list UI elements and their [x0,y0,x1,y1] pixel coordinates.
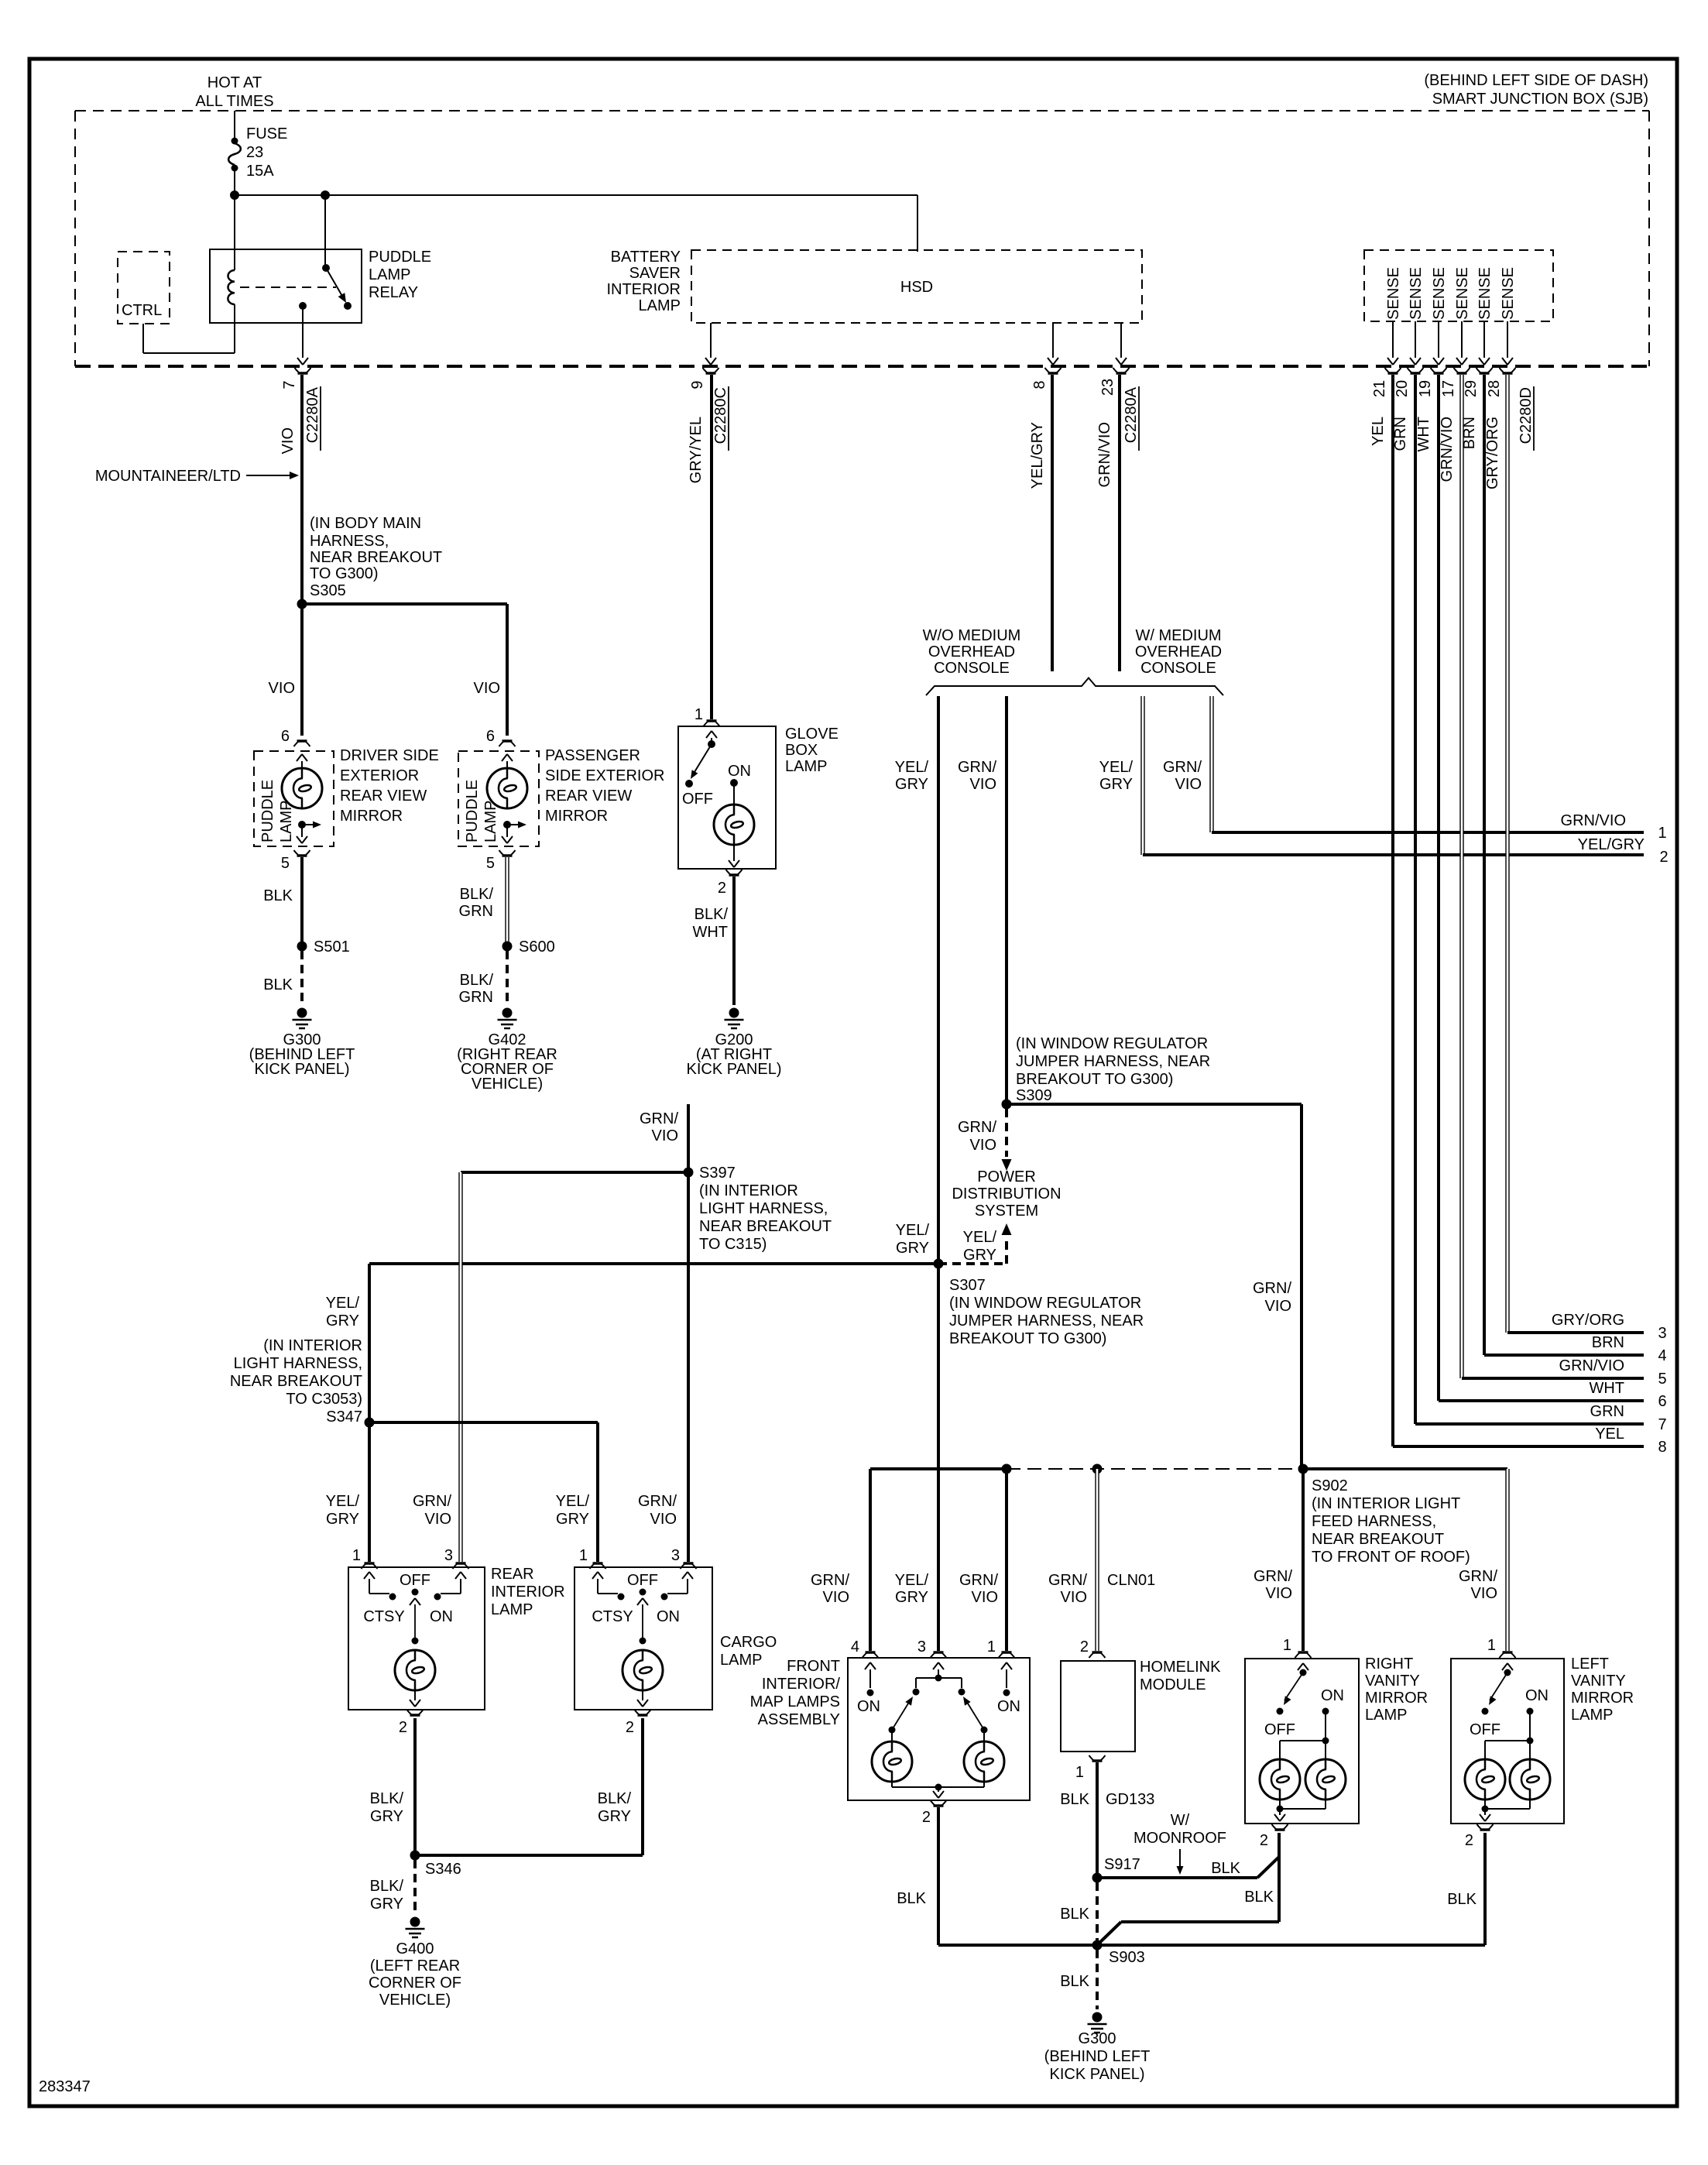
label console YEL/GRY 1 [895,759,929,793]
diagram number 283347 [39,2078,91,2095]
svg-text:GRN/: GRN/ [640,1110,678,1127]
label S307 note [949,1277,1144,1347]
svg-text:23: 23 [246,144,263,161]
pin 4 map lamps [851,1638,879,1658]
splice S902 [1298,1464,1308,1474]
svg-text:TO C315): TO C315) [699,1236,767,1253]
wire BLK/GRY rear lamp to S346 [413,1718,417,1855]
svg-text:GRY: GRY [598,1808,631,1825]
label BLK dashed g300 [1060,1973,1089,1990]
svg-text:GRN/: GRN/ [811,1572,849,1589]
svg-text:JUMPER HARNESS, NEAR: JUMPER HARNESS, NEAR [949,1312,1144,1330]
svg-text:GRY: GRY [326,1312,359,1330]
passenger mirror label [545,747,664,825]
label GRN/VIO map pin4 [811,1572,849,1606]
pin 2 glove box lamp [718,870,743,897]
HSD dashed box [691,250,1142,323]
pin 5 right edge [1559,1357,1667,1388]
svg-text:S346: S346 [425,1861,461,1878]
svg-text:GRY/YEL: GRY/YEL [688,417,705,483]
label S347 note [230,1337,362,1426]
svg-text:DRIVER SIDE: DRIVER SIDE [340,747,439,764]
wire BLK/GRY cargo to S346 [415,1718,643,1855]
svg-text:REAR VIEW: REAR VIEW [545,787,632,805]
wire S309 to S902 corner [1007,1104,1302,1469]
svg-text:TO C3053): TO C3053) [286,1391,362,1408]
pin 2 right vanity [1260,1824,1288,1849]
glove box switch [682,731,717,808]
pin 3 map lamps [917,1638,947,1658]
svg-text:BLK/: BLK/ [460,972,494,989]
map lamps left switch arrow [889,1695,916,1734]
wire BLK dashed to ground [300,951,304,1005]
label G300 main [1044,2030,1151,2083]
map lamp bulb left [872,1730,912,1782]
svg-text:BATTERY: BATTERY [611,249,681,266]
svg-text:2: 2 [1465,1832,1473,1849]
wire YEL/GRY w/ console [1143,696,1644,855]
svg-text:7: 7 [1658,1416,1666,1433]
svg-text:SYSTEM: SYSTEM [975,1203,1038,1220]
pin 7 right edge [1590,1403,1667,1433]
svg-text:2: 2 [399,1719,407,1736]
svg-text:VIO: VIO [425,1511,451,1528]
svg-text:BLK/: BLK/ [370,1878,404,1895]
pin 5 passenger mirror [486,850,516,872]
svg-text:GRN/: GRN/ [958,1119,996,1136]
pin 1 cargo lamp [579,1547,606,1569]
svg-text:PUDDLE: PUDDLE [259,780,276,842]
node relay branch dot [321,190,330,200]
svg-text:FUSE: FUSE [246,125,287,142]
svg-text:YEL/GRY: YEL/GRY [1029,422,1046,489]
svg-text:17: 17 [1440,380,1457,397]
svg-text:6: 6 [486,728,495,745]
ground G300 main [1088,2012,1107,2033]
connector C2280D pins 21 20 19 17 29 28 [1371,368,1535,451]
svg-text:LAMP: LAMP [720,1652,762,1669]
wire S347 branch to cargo pin1 [369,1422,598,1562]
wire BLK right vanity to S903 [1099,1922,1279,1944]
pin 3 rear interior lamp [444,1547,469,1569]
pin 3 cargo lamp [671,1547,697,1569]
rear interior lamp assembly [348,1567,485,1710]
svg-text:BOX: BOX [785,742,818,759]
map lamps pin3 bracket [913,1662,965,1696]
wire BLK/GRY dashed to G400 [413,1860,417,1914]
svg-text:YEL: YEL [1595,1426,1624,1443]
svg-text:4: 4 [851,1638,859,1655]
wire GRN/VIO S902 to left vanity pin1 [1303,1467,1507,1470]
svg-text:(BEHIND LEFT: (BEHIND LEFT [1044,2048,1151,2065]
pin 2 right edge [1578,836,1669,866]
pin 6 driver mirror [281,728,310,746]
label BLK s917 [1211,1860,1240,1877]
wire coil to CTRL [143,324,235,353]
wire BLK map lamps to S903 line [937,1807,940,1945]
connector C2280A pin 7 [281,368,321,451]
ground G200 [725,1008,744,1029]
svg-text:VIO: VIO [970,776,996,793]
svg-text:GRY: GRY [895,776,928,793]
wire branch to relay switch [324,195,326,268]
svg-text:MAP LAMPS: MAP LAMPS [750,1693,840,1710]
label BLK/GRY dashed g400 [370,1878,404,1913]
svg-text:SMART JUNCTION BOX (SJB): SMART JUNCTION BOX (SJB) [1432,91,1648,108]
svg-text:1: 1 [1283,1637,1291,1654]
wire YEL/GRY S307 to rear lamps [369,1262,938,1265]
svg-text:LAMP: LAMP [1571,1707,1613,1724]
svg-text:FEED HARNESS,: FEED HARNESS, [1312,1513,1436,1530]
svg-text:KICK PANEL): KICK PANEL) [1050,2066,1145,2083]
svg-text:2: 2 [1080,1638,1089,1655]
svg-text:GRN/: GRN/ [1048,1572,1087,1589]
svg-text:PUDDLE: PUDDLE [369,249,431,266]
ground G300 driver [293,1008,312,1029]
label RIGHT VANITY MIRROR LAMP [1365,1655,1428,1724]
ground G402 [498,1008,517,1029]
wire GRN/VIO double to rear lamp pin3 [458,1172,462,1562]
label REAR INTERIOR LAMP [491,1566,565,1618]
svg-text:LAMP: LAMP [369,266,410,283]
glove box bulb to pin2 [729,845,739,867]
wires SENSE outputs arrows [1387,321,1513,365]
wire BLK homelink to S917 [1096,1762,1099,1878]
relay internal dashed link [240,286,336,288]
svg-text:ON: ON [1321,1687,1344,1704]
cargo lamp assembly [574,1567,712,1710]
glove box lamp label [785,726,839,775]
wire HSD out pin 9 arrow [705,323,716,365]
svg-text:SENSE: SENSE [1476,267,1494,320]
svg-text:SENSE: SENSE [1385,267,1402,320]
svg-text:LAMP: LAMP [639,297,681,314]
node CLN01 junction [1092,1464,1103,1474]
label BLK [263,887,293,904]
label YEL/GRY rear1 [326,1493,360,1528]
label G300 driver [249,1031,355,1078]
svg-text:REAR: REAR [491,1566,534,1583]
connector pin 8 [1031,368,1061,389]
svg-text:GRN: GRN [1392,417,1409,451]
svg-text:YEL/: YEL/ [896,1222,930,1239]
homelink module box [1061,1661,1135,1752]
label GRN/VIO right vanity [1254,1568,1292,1602]
wire hot feed into fuse [234,111,235,138]
label G200 [687,1031,782,1078]
glove box bulb [714,805,754,845]
label S902 note [1312,1477,1470,1566]
label W/ MEDIUM OVERHEAD CONSOLE [1135,627,1222,677]
label GRN/VIO rear1 [413,1493,451,1528]
svg-text:TO FRONT OF ROOF): TO FRONT OF ROOF) [1312,1549,1470,1566]
label GRN/VIO left vanity [1459,1568,1497,1602]
svg-text:VIO: VIO [972,1589,998,1606]
svg-text:HOT AT: HOT AT [207,74,262,91]
svg-text:5: 5 [281,855,290,872]
svg-text:BREAKOUT TO G300): BREAKOUT TO G300) [949,1330,1106,1347]
svg-text:(IN INTERIOR: (IN INTERIOR [699,1182,798,1199]
svg-text:G400: G400 [396,1940,434,1957]
svg-text:29: 29 [1463,380,1480,397]
svg-text:W/: W/ [1171,1812,1190,1829]
svg-text:S347: S347 [326,1408,362,1426]
svg-text:YEL/: YEL/ [1099,759,1134,776]
svg-text:21: 21 [1371,380,1388,397]
svg-text:C2280C: C2280C [712,387,729,444]
driver mirror internal node [297,821,321,843]
svg-text:GRN: GRN [459,903,493,920]
svg-text:INTERIOR/: INTERIOR/ [762,1676,841,1693]
svg-text:BRN: BRN [1592,1334,1624,1351]
node HOT AT ALL TIMES [195,74,273,110]
label G402 [457,1031,557,1093]
svg-text:G300: G300 [1079,2030,1116,2047]
svg-text:OFF: OFF [682,791,713,808]
label FRONT INTERIOR MAP LAMPS ASSEMBLY [750,1658,841,1728]
label GRN/VIO rotated [1096,422,1113,487]
relay box outline [210,249,362,323]
CTRL box dashed [118,252,170,324]
label GRY/YEL pin9 wire [688,417,705,483]
wire relay output to pin 7 [297,306,308,365]
wire BLK/GRN dashed to ground [506,951,509,1005]
label BLK dashed mid [1060,1906,1089,1923]
svg-text:VIO: VIO [970,1137,996,1154]
map lamps pin1 ON switch [997,1662,1020,1715]
svg-text:WHT: WHT [1589,1380,1624,1397]
ground G400 [406,1917,425,1938]
wire YEL pin21 to row8 [1393,375,1644,1446]
svg-text:CORNER OF: CORNER OF [369,1975,461,1992]
svg-text:C2280A: C2280A [1123,386,1140,443]
svg-text:BLK: BLK [1447,1891,1476,1908]
label BLK GD133 [1060,1791,1154,1808]
wire GRN/VIO dashed to power distribution [1002,1109,1012,1171]
svg-text:BLK: BLK [1244,1889,1274,1906]
svg-text:GRY: GRY [326,1511,359,1528]
svg-text:YEL: YEL [1370,417,1387,446]
pin 8 right edge [1595,1426,1666,1456]
svg-text:OFF: OFF [627,1572,658,1589]
label GRN/VIO S397 [640,1110,678,1144]
glove box lamp box [678,726,776,869]
svg-text:ASSEMBLY: ASSEMBLY [758,1711,840,1728]
svg-text:ON: ON [997,1698,1020,1715]
svg-text:(IN WINDOW REGULATOR: (IN WINDOW REGULATOR [1016,1035,1208,1052]
label PUDDLE LAMP rotated [259,780,295,842]
svg-text:YEL/: YEL/ [326,1493,360,1510]
svg-text:(IN WINDOW REGULATOR: (IN WINDOW REGULATOR [949,1295,1141,1312]
svg-text:CARGO: CARGO [720,1634,777,1651]
svg-text:ON: ON [1525,1687,1549,1704]
svg-text:POWER: POWER [977,1168,1036,1185]
label HOMELINK MODULE [1140,1659,1221,1693]
svg-text:W/O MEDIUM: W/O MEDIUM [923,627,1021,644]
svg-text:S903: S903 [1109,1949,1145,1966]
label VIO pin7 wire [280,427,297,454]
splice S397 [684,1168,694,1178]
svg-text:GRY: GRY [1099,776,1133,793]
svg-text:BLK/: BLK/ [695,906,729,923]
svg-text:MODULE: MODULE [1140,1676,1206,1693]
svg-text:(IN BODY MAIN: (IN BODY MAIN [310,515,421,532]
svg-text:BLK: BLK [1211,1860,1240,1877]
svg-text:(IN INTERIOR: (IN INTERIOR [263,1337,362,1354]
svg-text:GRN/: GRN/ [1163,759,1202,776]
svg-text:VIO: VIO [1471,1585,1497,1602]
svg-text:NEAR BREAKOUT: NEAR BREAKOUT [230,1373,362,1390]
svg-text:SENSE: SENSE [1431,267,1448,320]
wire YEL/GRY w/o console down [937,696,940,1651]
passenger mirror internal node [502,821,526,843]
map lamps bottom join [892,1782,984,1798]
pin 6 right edge [1589,1380,1666,1410]
svg-text:GRN/: GRN/ [1459,1568,1497,1585]
label YEL/GRY S307 left [896,1222,930,1257]
label YEL/GRY pds [963,1229,997,1264]
label W/ MOONROOF pointer [1134,1812,1226,1875]
wire BLK dashed S917 to S903 [1096,1882,1099,1940]
svg-text:BLK: BLK [1060,1791,1089,1808]
svg-text:SENSE: SENSE [1408,267,1425,320]
svg-text:HSD: HSD [900,279,933,296]
svg-text:283347: 283347 [39,2078,91,2095]
label W/O MEDIUM OVERHEAD CONSOLE [923,627,1021,677]
svg-text:3: 3 [671,1547,680,1564]
wire S397 branch to rear lamp pin3 [461,1171,688,1174]
svg-text:SENSE: SENSE [1454,267,1471,320]
svg-text:S305: S305 [310,582,346,599]
wire BLK/GRN to S600 [505,857,509,946]
relay coil [228,195,235,353]
svg-text:GRY: GRY [370,1808,403,1825]
svg-text:OVERHEAD: OVERHEAD [928,643,1015,660]
svg-text:(IN INTERIOR LIGHT: (IN INTERIOR LIGHT [1312,1495,1460,1512]
svg-text:VIO: VIO [652,1127,678,1144]
svg-text:GRN/VIO: GRN/VIO [1096,422,1113,487]
svg-text:ALL TIMES: ALL TIMES [195,93,273,110]
svg-text:15A: 15A [246,163,274,180]
label VIO left [269,680,295,697]
driver puddle lamp bulb [282,754,322,808]
svg-text:6: 6 [281,728,290,745]
svg-text:GRN/: GRN/ [958,759,996,776]
svg-text:GRN: GRN [1590,1403,1624,1420]
map lamps assembly box [848,1658,1030,1800]
svg-text:CTSY: CTSY [363,1608,404,1625]
wire BLK to S501 [300,857,304,946]
wire HSD out pin 23 arrow [1116,323,1127,365]
wire GRN/VIO w/ console [1212,696,1644,832]
wire GRN/VIO pin17 to row5 [1462,375,1644,1378]
label BLK/GRY rear [370,1790,404,1825]
puddle lamp relay label [369,249,431,301]
svg-text:(BEHIND LEFT SIDE OF DASH): (BEHIND LEFT SIDE OF DASH) [1424,72,1648,89]
svg-text:VEHICLE): VEHICLE) [379,1992,451,2009]
pin 5 driver mirror [281,850,310,872]
wire BLK dashed S903 to G300 [1096,1950,1099,2009]
svg-text:INTERIOR: INTERIOR [491,1583,565,1601]
svg-text:VANITY: VANITY [1365,1673,1420,1690]
label LEFT VANITY MIRROR LAMP [1571,1655,1634,1724]
svg-text:SENSE: SENSE [1500,267,1517,320]
label GRN/VIO map pin1 [959,1572,998,1606]
svg-text:GRN: GRN [459,989,493,1006]
label BLK dashed [263,976,293,993]
wire VIO pin7 to S305 [300,375,304,604]
right vanity mirror lamp [1245,1659,1359,1824]
label S397 note [699,1165,832,1253]
svg-text:MIRROR: MIRROR [340,808,403,825]
wire GRN/VIO S309 riser to cargo pin3 [687,1104,690,1562]
svg-text:MIRROR: MIRROR [545,808,608,825]
wire BRN pin29 to row4 [1484,375,1644,1355]
pin 3 right edge [1552,1312,1667,1342]
pin 1 left vanity [1487,1637,1516,1658]
svg-text:1: 1 [1075,1764,1084,1781]
SJB label text [1424,72,1648,108]
wire HSD out pin 8 arrow [1048,323,1058,365]
svg-text:VIO: VIO [1266,1585,1292,1602]
svg-text:ON: ON [728,763,751,780]
console option brace [926,678,1223,696]
svg-text:WHT: WHT [692,924,728,941]
svg-text:JUMPER HARNESS, NEAR: JUMPER HARNESS, NEAR [1016,1053,1210,1070]
svg-text:BLK: BLK [263,887,293,904]
svg-text:VEHICLE): VEHICLE) [472,1076,543,1093]
wire WHT pin19 to row6 [1439,375,1644,1401]
SJB smart junction box dashed outline [75,111,1649,366]
svg-text:GRN/: GRN/ [638,1493,677,1510]
svg-text:GD133: GD133 [1106,1791,1154,1808]
pin 2 homelink [1080,1638,1106,1658]
label BLK left vanity [1447,1891,1476,1908]
svg-text:1: 1 [695,706,703,723]
svg-text:5: 5 [1658,1371,1666,1388]
label YEL/GRY rotated [1029,422,1046,489]
left vanity mirror lamp [1451,1659,1564,1824]
svg-text:YEL/: YEL/ [326,1295,360,1312]
svg-text:3: 3 [1658,1325,1666,1342]
wire dashed S902 link [1007,1468,1303,1470]
svg-text:YEL/: YEL/ [895,1572,929,1589]
svg-text:OFF: OFF [1264,1721,1295,1738]
svg-text:MIRROR: MIRROR [1571,1690,1634,1707]
svg-text:MOONROOF: MOONROOF [1134,1830,1226,1847]
wire BLK bus S903 [938,1833,1485,1945]
wire CLN01 to homelink pin2 [1095,1469,1099,1651]
svg-text:8: 8 [1658,1439,1666,1456]
label console YEL/GRY 2 [1099,759,1134,793]
svg-text:YEL/: YEL/ [556,1493,590,1510]
svg-text:ON: ON [657,1608,680,1625]
svg-text:KICK PANEL): KICK PANEL) [687,1061,782,1078]
wire bus line to HSD drop [235,195,917,252]
driver mirror label [340,747,439,825]
svg-text:C2280A: C2280A [304,386,321,443]
map lamps right switch arrow [960,1695,987,1734]
label GRN/VIO right riser [1253,1280,1291,1315]
pin 1 map lamps [987,1638,1015,1658]
svg-text:VIO: VIO [1265,1298,1291,1315]
wire GRN pin20 to row7 [1415,375,1644,1424]
label GRN/VIO cargo [638,1493,677,1528]
label CARGO LAMP [720,1634,777,1669]
svg-text:GRY: GRY [895,1589,928,1606]
wire S305 to driver mirror [300,604,304,736]
map lamp bulb right [964,1730,1004,1782]
